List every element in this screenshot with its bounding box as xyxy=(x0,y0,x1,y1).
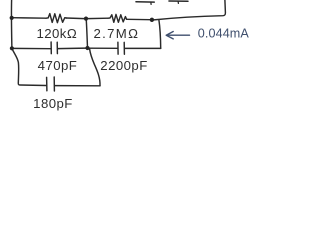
wire top row: R1 to node B xyxy=(66,17,84,20)
wire bottom loop right side (slanted up to middle node) xyxy=(90,49,100,86)
partial mark top 2 (cropped symbol bar) xyxy=(169,0,188,2)
node E junction dot (middle row center) xyxy=(85,46,89,50)
node A junction dot (top left) xyxy=(10,16,14,20)
wire top row: node B to R2 xyxy=(88,17,108,19)
wire top row: node C rising to top-right exit xyxy=(154,0,226,20)
node B junction dot (between R1 and R2) xyxy=(84,17,88,21)
svg-text:2.7MΩ: 2.7MΩ xyxy=(94,26,140,41)
wire left rail (top to middle row) xyxy=(10,0,12,48)
wire middle row: C1 to node E xyxy=(58,47,86,50)
capacitor C2 2200pF right plate xyxy=(123,42,125,54)
wire top row: left segment xyxy=(12,17,46,20)
wire middle row: node E to C2 xyxy=(89,47,118,49)
capacitor C1 470pF right plate xyxy=(56,42,58,53)
resistor R2 2.7M zigzag xyxy=(108,14,127,22)
wire middle row: C2 to right drop xyxy=(125,47,161,49)
svg-text:0.044mA: 0.044mA xyxy=(198,27,250,41)
partial mark top 2 stub xyxy=(177,2,179,4)
svg-text:2200pF: 2200pF xyxy=(100,58,147,73)
partial mark top 1 (cropped symbol bar) xyxy=(136,1,154,3)
node D junction dot (middle row left) xyxy=(10,46,14,50)
partial mark top 1 stub xyxy=(150,3,152,5)
capacitor C3 180pF left plate xyxy=(46,77,48,91)
wire top row: R2 to node C xyxy=(127,18,150,20)
node C junction dot (right of R2) xyxy=(150,18,154,22)
wire middle row: left segment xyxy=(12,47,51,49)
capacitor C3 180pF right plate xyxy=(53,77,55,91)
svg-text:470pF: 470pF xyxy=(38,58,78,73)
svg-text:180pF: 180pF xyxy=(33,96,73,111)
capacitor C2 2200pF left plate xyxy=(117,42,119,54)
wire bottom loop left side xyxy=(12,48,46,85)
wire bottom loop bottom right segment xyxy=(55,85,100,87)
wire mid rail (node B down to middle row) xyxy=(86,19,87,48)
wire right drop (top wire down to middle row right end) xyxy=(159,20,161,49)
current annotation arrow 0.044mA xyxy=(166,32,189,39)
svg-text:120kΩ: 120kΩ xyxy=(36,26,77,41)
resistor R1 120k zigzag xyxy=(46,14,66,23)
capacitor C1 470pF left plate xyxy=(50,42,52,54)
